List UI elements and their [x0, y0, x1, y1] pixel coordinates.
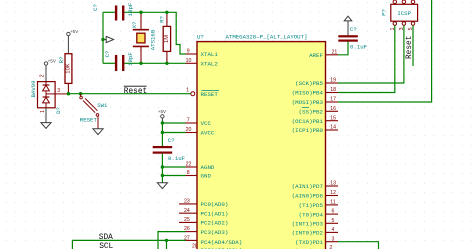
value ATMEGA328-P_[ALT_LAYOUT]	[226, 33, 308, 40]
svg-text:PC3(AD3): PC3(AD3)	[201, 229, 229, 236]
wire ICSP pin1 to PB4 MISO	[338, 25, 395, 92]
svg-text:14: 14	[330, 125, 336, 131]
wire PC3 down	[158, 232, 186, 249]
svg-text:ICSP: ICSP	[397, 10, 411, 17]
svg-text:+5V: +5V	[158, 109, 167, 114]
svg-text:C?: C?	[350, 26, 357, 33]
wire left vertical (caps gnd side)	[102, 12, 104, 63]
svg-text:PC0(AD0): PC0(AD0)	[201, 201, 229, 208]
pin 25 PC2(AD2)	[179, 217, 228, 227]
pin 18 (MISO)PB4	[292, 87, 338, 97]
svg-text:1M: 1M	[164, 35, 170, 43]
diode D1 BAV99	[30, 74, 62, 114]
wire AVCC pin	[162, 132, 185, 134]
junction R1 bottom / D1 pin3	[67, 92, 70, 95]
svg-text:SDA: SDA	[99, 234, 113, 242]
junction crystal top	[139, 11, 142, 14]
svg-text:XTAL2: XTAL2	[201, 61, 219, 68]
junction switch tap	[79, 92, 82, 95]
pin 23 PC0(AD0)	[179, 199, 228, 209]
svg-text:23: 23	[184, 199, 190, 205]
junction VCC	[161, 121, 164, 124]
svg-text:4: 4	[332, 227, 335, 233]
resistor R2 1M	[158, 12, 170, 63]
svg-text:22: 22	[186, 162, 192, 168]
svg-text:P?: P?	[381, 9, 388, 16]
svg-text:GND: GND	[201, 173, 212, 180]
junction AGND	[161, 165, 164, 168]
svg-text:0.1uF: 0.1uF	[168, 155, 186, 162]
wire Reset net	[68, 93, 190, 95]
svg-text:+5V: +5V	[48, 58, 57, 63]
wire VCC pin	[162, 122, 185, 124]
svg-text:15: 15	[330, 115, 336, 121]
pin 14 (ICP1)PB0	[292, 125, 338, 135]
svg-text:R?: R?	[58, 57, 65, 64]
wire VCC column	[161, 123, 163, 183]
capacitor C1 18pF (top)	[92, 2, 134, 20]
svg-text:Reset: Reset	[406, 36, 414, 59]
IC U? ATMEGA328-P_[ALT_LAYOUT]	[197, 42, 326, 249]
svg-text:(SCK)PB5: (SCK)PB5	[295, 80, 323, 87]
svg-text:8: 8	[187, 170, 190, 176]
capacitor C2 18pF (bottom)	[104, 51, 134, 71]
svg-text:(INT1)PD3: (INT1)PD3	[292, 221, 324, 228]
pin 19 (SCK)PB5	[295, 78, 338, 88]
pin 27 PC4(AD4/SDA)	[184, 235, 242, 245]
pin 5 (INT1)PD3	[292, 218, 338, 228]
pin 17 (MOSI)PB3	[292, 97, 338, 107]
resistor R1 10K	[58, 54, 72, 94]
svg-text:20: 20	[186, 127, 192, 133]
svg-text:5: 5	[332, 218, 335, 224]
pin 13 (AIN1)PD7	[292, 181, 338, 191]
pin 7 VCC	[186, 118, 212, 128]
svg-text:2: 2	[330, 245, 333, 249]
svg-text:(INT0)PD2: (INT0)PD2	[292, 230, 324, 237]
switch SW1 RESET	[80, 94, 108, 129]
svg-text:6: 6	[332, 209, 335, 215]
wire SDA	[72, 240, 185, 249]
svg-text:11: 11	[330, 200, 335, 206]
power +5V (pullup R)	[67, 29, 80, 54]
junction SDA drop	[165, 239, 168, 249]
junction gnd arrow	[101, 38, 104, 41]
junction crystal bottom	[139, 62, 142, 65]
svg-text:12: 12	[330, 190, 336, 196]
power +5V (BAV99)	[44, 58, 57, 81]
pin 20 AVCC	[186, 127, 215, 137]
svg-text:(AIN0)PD6: (AIN0)PD6	[292, 193, 324, 200]
svg-text:24: 24	[184, 208, 190, 214]
svg-text:ATMEGA328–P_[ALT_LAYOUT]: ATMEGA328–P_[ALT_LAYOUT]	[226, 33, 308, 40]
svg-text:2: 2	[40, 74, 46, 77]
svg-text:PC2(AD2): PC2(AD2)	[201, 220, 229, 227]
svg-text:C?: C?	[168, 137, 175, 144]
svg-text:VCC: VCC	[201, 120, 212, 127]
junction GND	[161, 174, 164, 177]
pin 28 PC5(AD5/SCL)	[186, 243, 243, 249]
svg-text:10: 10	[186, 58, 192, 64]
reference U?	[197, 33, 204, 40]
svg-text:18pF: 18pF	[127, 52, 134, 66]
svg-text:(MOSI)PB3: (MOSI)PB3	[292, 99, 324, 106]
capacitor C4 0.1uF (AREF)	[338, 26, 367, 51]
pin 12 (AIN0)PD6	[292, 190, 338, 200]
svg-text:SCL: SCL	[99, 243, 113, 249]
svg-text:(T0)PD4: (T0)PD4	[299, 211, 324, 218]
svg-text:(TXD)PD1: (TXD)PD1	[295, 239, 323, 246]
node Reset label	[124, 86, 147, 96]
connector P? ICSP	[381, 0, 418, 30]
svg-text:R?: R?	[158, 16, 165, 23]
svg-text:(OC1A)PB1: (OC1A)PB1	[292, 118, 324, 125]
svg-text:16: 16	[330, 106, 336, 112]
ground arrow (crystal caps)	[103, 36, 114, 42]
svg-text:AREF: AREF	[309, 52, 323, 59]
node Reset label (vertical)	[406, 36, 414, 59]
power +5V (VCC rail)	[158, 109, 167, 123]
svg-text:U?: U?	[197, 33, 204, 40]
svg-text:AVCC: AVCC	[201, 130, 215, 137]
svg-text:18pF: 18pF	[127, 2, 134, 16]
wire TXD down	[338, 242, 379, 249]
wire AGND pin	[162, 166, 185, 168]
svg-text:PC1(AD1): PC1(AD1)	[201, 210, 229, 217]
wire AREF	[338, 42, 348, 55]
svg-text:C?: C?	[92, 4, 99, 11]
pin 2 (RXD)PD0	[295, 245, 338, 249]
wire XTAL1 net top	[103, 12, 186, 54]
wire MOSI to top edge	[338, 0, 432, 102]
pin 9 XTAL1	[186, 49, 219, 59]
svg-text:SW1: SW1	[97, 102, 108, 109]
svg-text:25: 25	[184, 217, 190, 223]
pin 11 (T1)PD5	[299, 200, 338, 210]
svg-text:(AIN1)PD7: (AIN1)PD7	[292, 183, 324, 190]
pin 1 RESET (inverted)	[186, 88, 219, 98]
node SDA label	[99, 234, 113, 242]
crystal X? ATS16B	[131, 12, 157, 63]
svg-text:13: 13	[330, 181, 336, 187]
svg-text:X?: X?	[131, 22, 138, 29]
pin 10 XTAL2	[186, 58, 219, 68]
svg-text:0.1uF: 0.1uF	[350, 44, 368, 51]
svg-text:21: 21	[332, 49, 338, 55]
svg-text:AGND: AGND	[201, 164, 215, 171]
svg-text:(ICP1)PB0: (ICP1)PB0	[292, 127, 324, 134]
svg-text:17: 17	[330, 97, 336, 103]
svg-text:RESET: RESET	[201, 91, 219, 98]
junction R bottom	[165, 62, 168, 65]
pin 3 wire BAV99 to junction	[55, 93, 68, 95]
ground (switch)	[93, 129, 103, 135]
svg-text:ATS16B: ATS16B	[150, 29, 157, 50]
wire XTAL2 net bottom	[103, 62, 186, 64]
svg-text:BAV99: BAV99	[30, 80, 37, 98]
svg-text:C?: C?	[104, 51, 111, 58]
svg-text:+5V: +5V	[70, 29, 79, 34]
capacitor C3 0.1uF (VCC)	[153, 137, 186, 162]
svg-text:Reset: Reset	[124, 88, 147, 96]
power arrow up (AREF cap)	[344, 16, 352, 35]
pin 26 PC3(AD3)	[184, 226, 228, 236]
svg-text:18: 18	[330, 87, 336, 93]
ground (BAV99)	[41, 108, 51, 129]
svg-text:1: 1	[186, 88, 189, 94]
svg-text:(SS)PB2: (SS)PB2	[299, 109, 324, 116]
wire ICSP pin3 to PB5 SCK	[338, 25, 404, 83]
pin 22 AGND	[186, 162, 215, 172]
svg-text:PC4(AD4/SDA): PC4(AD4/SDA)	[201, 239, 243, 246]
ground (VCC cap)	[157, 183, 167, 189]
pin 24 PC1(AD1)	[179, 208, 228, 218]
svg-text:(T1)PD5: (T1)PD5	[299, 202, 324, 209]
pin 21 AREF	[309, 49, 338, 59]
pin 15 (OC1A)PB1	[292, 115, 338, 125]
svg-text:(MISO)PB4: (MISO)PB4	[292, 90, 324, 97]
svg-text:D?: D?	[55, 107, 62, 114]
svg-text:1: 1	[40, 110, 46, 113]
pin 16 (SS)PB2	[299, 106, 338, 116]
svg-text:XTAL1: XTAL1	[201, 51, 219, 58]
svg-text:7: 7	[187, 118, 190, 124]
svg-text:19: 19	[330, 78, 336, 84]
pin 4 (INT0)PD2	[292, 227, 338, 237]
svg-text:28: 28	[192, 243, 198, 249]
svg-text:10K: 10K	[65, 63, 71, 73]
pin 8 GND	[186, 170, 212, 180]
pin 3 (TXD)PD1	[295, 236, 338, 246]
svg-text:3: 3	[332, 236, 335, 242]
pin 6 (T0)PD4	[299, 209, 338, 219]
node SCL label	[99, 243, 113, 249]
svg-text:RESET: RESET	[80, 117, 98, 124]
svg-text:9: 9	[187, 49, 190, 55]
wire GND pin	[162, 175, 185, 177]
junction AVCC	[161, 131, 164, 134]
svg-text:3: 3	[57, 88, 60, 94]
junction R top	[165, 11, 168, 14]
wire ICSP pin5 Reset stub	[412, 25, 414, 66]
